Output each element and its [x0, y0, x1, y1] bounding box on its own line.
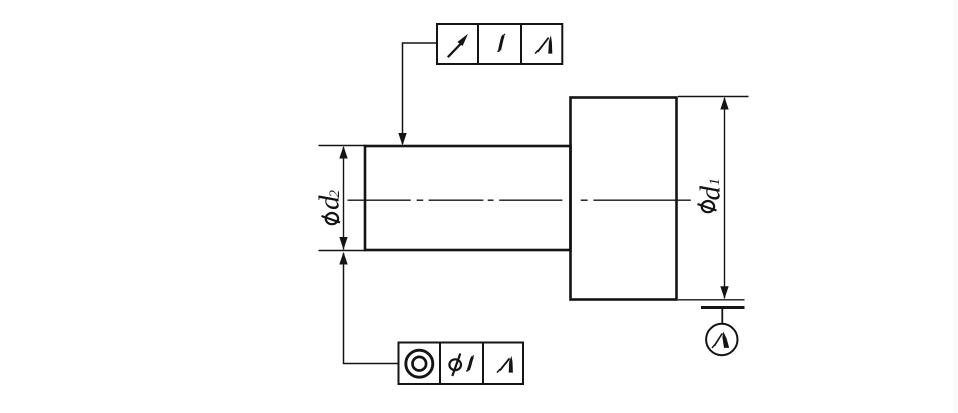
tolerance t — [497, 34, 505, 51]
dimension phi d2 extension line bottom — [319, 250, 367, 252]
svg-text:1: 1 — [707, 178, 723, 186]
shaft large cylinder body — [571, 98, 677, 300]
dimension phi d1 line — [724, 98, 726, 299]
datum circle A — [706, 324, 737, 355]
bottom leader arrow up — [339, 252, 347, 265]
bottom frame leader — [344, 253, 399, 364]
svg-text:d: d — [695, 186, 727, 201]
tolerance phi t — [449, 354, 473, 377]
dimension phi d1 arrow down — [720, 286, 728, 299]
top leader arrow — [398, 133, 406, 146]
top feature control frame — [437, 24, 562, 64]
circular runout symbol — [448, 34, 468, 57]
top frame leader — [403, 43, 438, 144]
concentricity symbol — [406, 350, 433, 377]
label phi d1 — [695, 178, 727, 212]
datum bar on surface — [701, 306, 745, 309]
svg-text:2: 2 — [327, 190, 343, 198]
shaft small cylinder body — [365, 146, 571, 250]
dimension phi d1 extension line bottom — [678, 299, 745, 301]
dimension phi d2 arrow up — [339, 146, 347, 159]
label phi d2 — [314, 190, 346, 225]
bottom feature control frame — [399, 343, 524, 385]
dimension phi d1 arrow up — [720, 97, 728, 110]
centerline axis — [348, 199, 691, 201]
dimension phi d2 extension line top — [319, 145, 367, 147]
datum leader — [721, 309, 723, 325]
dimension phi d2 line — [343, 147, 345, 250]
datum ref A bottom frame — [496, 356, 513, 373]
dimension phi d1 extension line top — [678, 96, 749, 98]
datum ref A top frame — [535, 35, 553, 54]
dimension phi d2 arrow down — [339, 237, 347, 250]
